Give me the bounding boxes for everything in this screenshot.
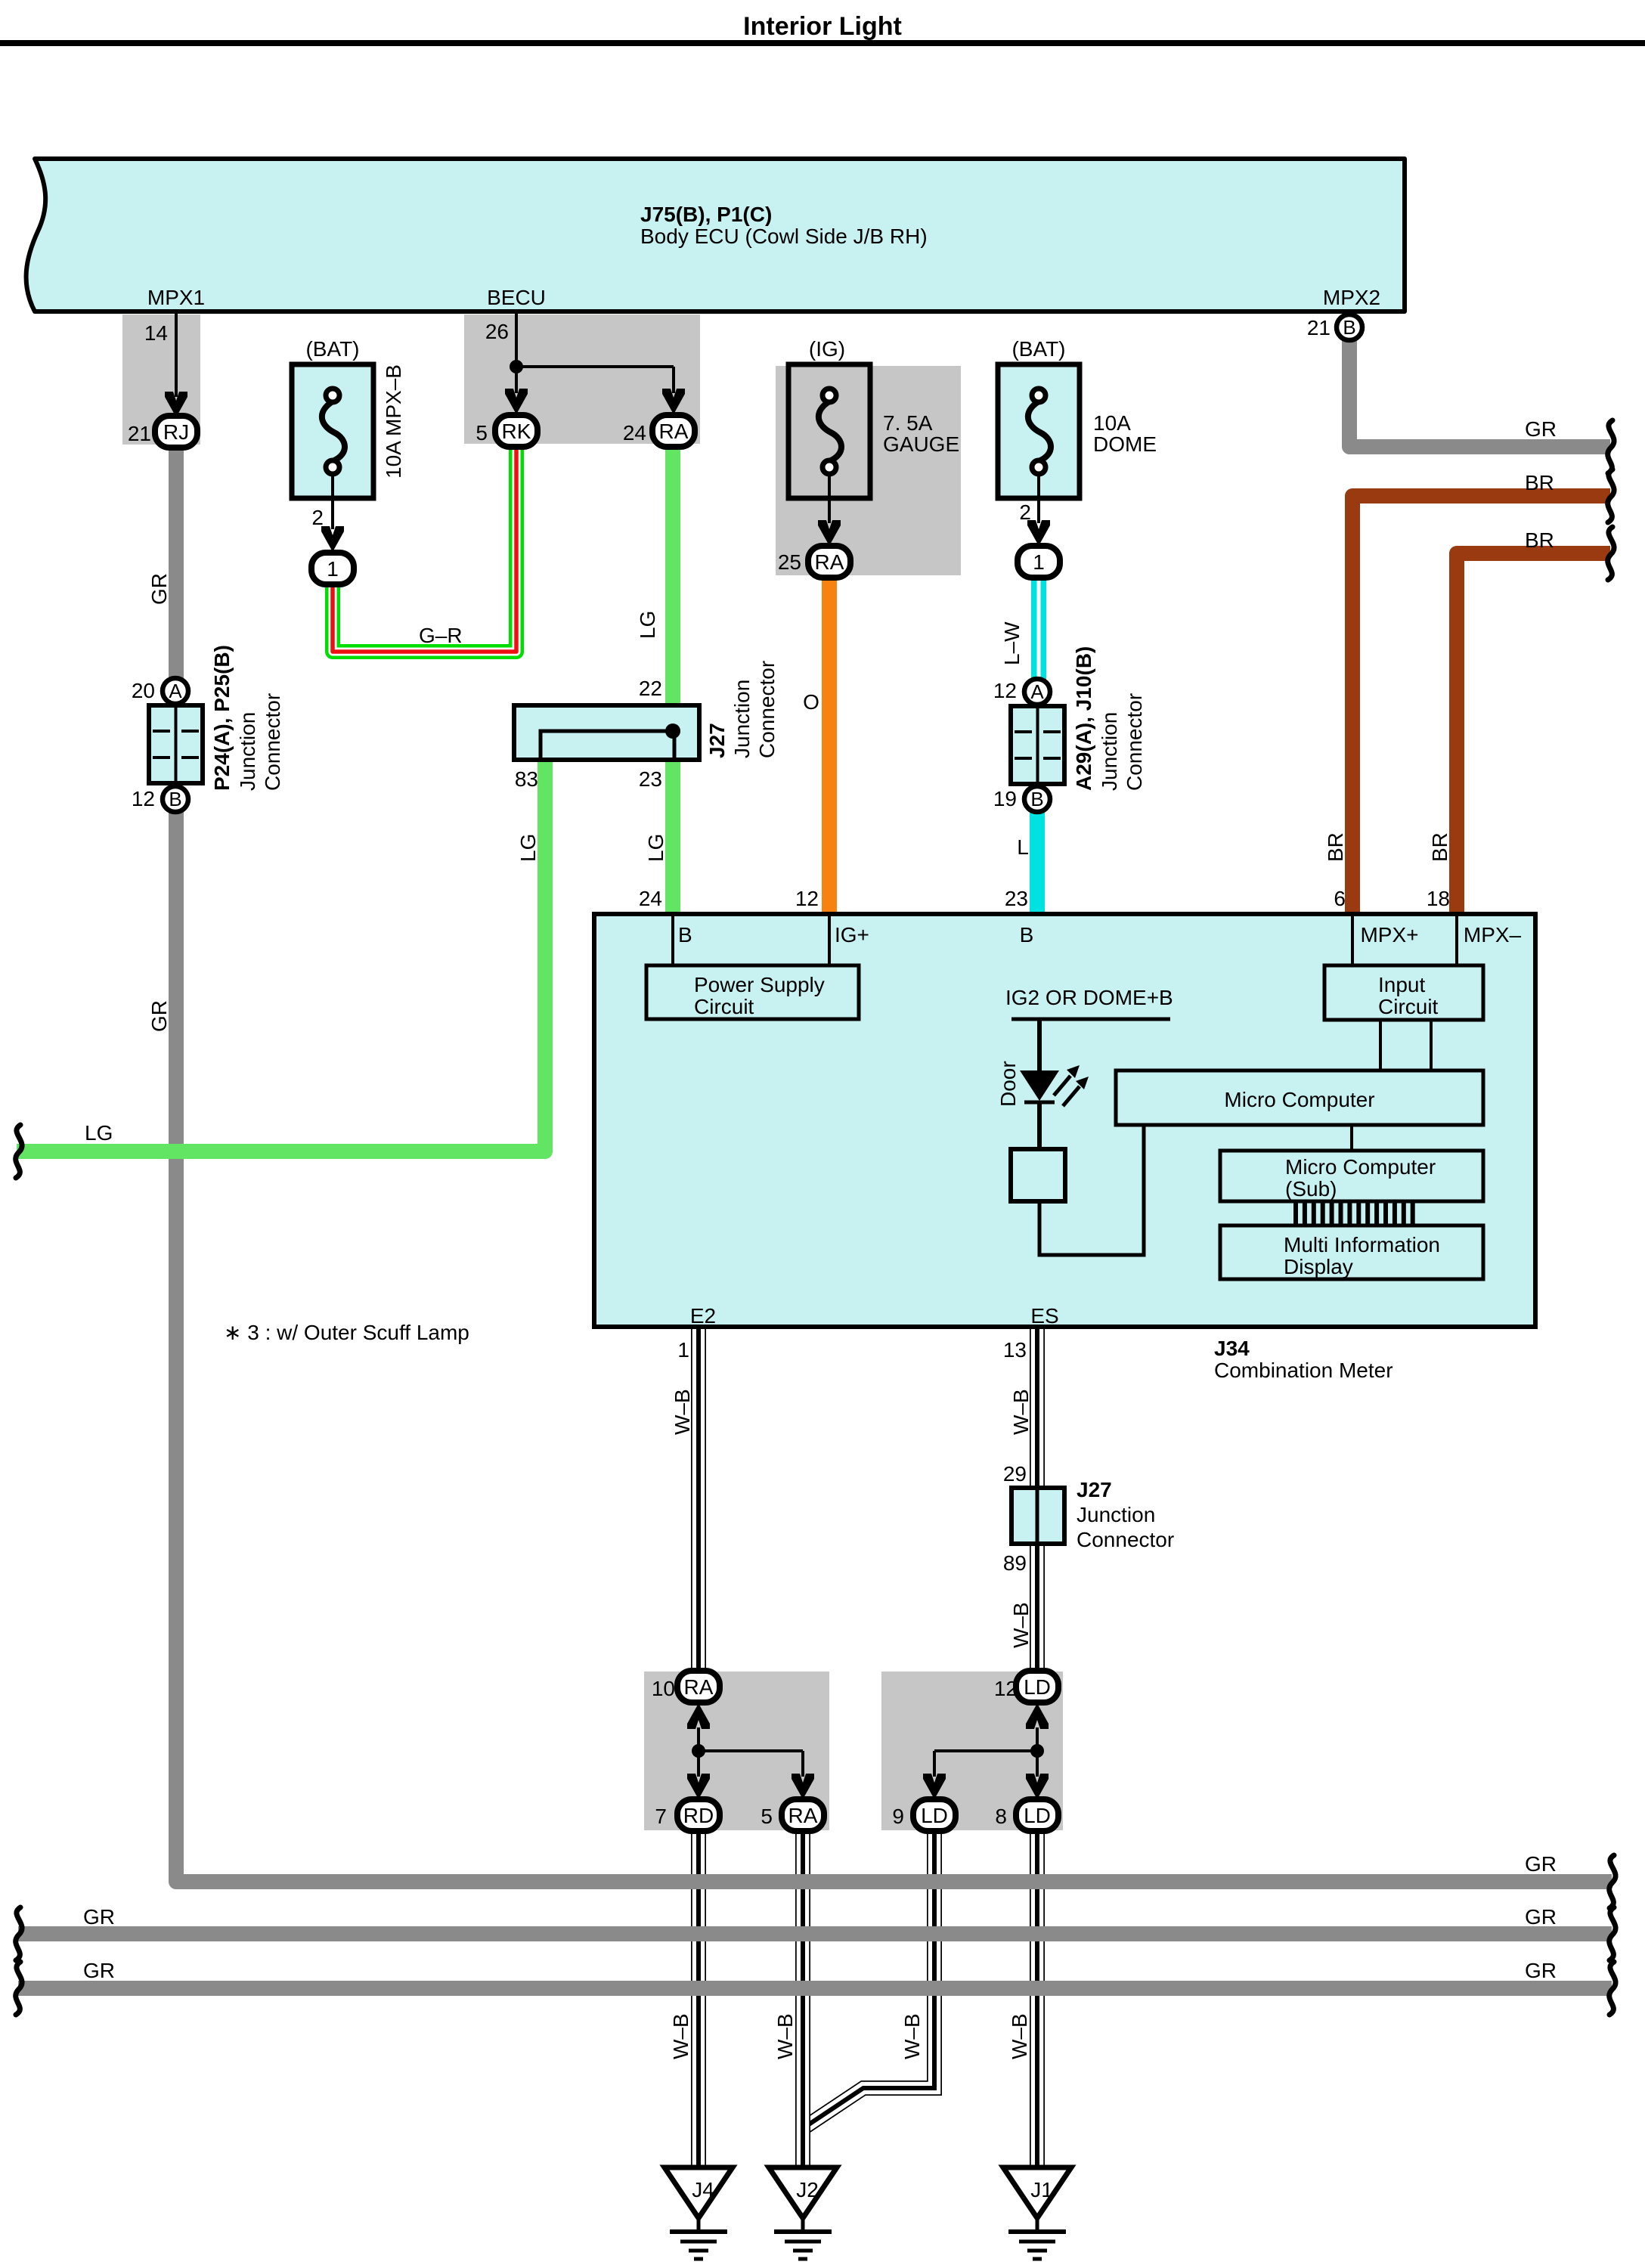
svg-text:LG: LG [516, 834, 540, 862]
svg-text:W–B: W–B [1009, 1389, 1033, 1435]
svg-text:Connector: Connector [755, 661, 779, 758]
svg-text:∗ 3 : w/ Outer Scuff Lamp: ∗ 3 : w/ Outer Scuff Lamp [224, 1321, 469, 1344]
svg-text:2: 2 [311, 506, 324, 529]
svg-text:IG+: IG+ [835, 923, 869, 947]
svg-text:Display: Display [1284, 1255, 1353, 1278]
svg-text:RA: RA [788, 1804, 818, 1827]
svg-text:9: 9 [892, 1805, 904, 1828]
svg-text:(BAT): (BAT) [1011, 337, 1065, 361]
svg-text:83: 83 [515, 767, 538, 791]
svg-text:24: 24 [639, 887, 662, 910]
svg-text:Micro Computer: Micro Computer [1224, 1088, 1374, 1111]
svg-text:23: 23 [1005, 887, 1028, 910]
svg-text:W–B: W–B [671, 1389, 694, 1435]
svg-text:MPX2: MPX2 [1323, 286, 1380, 309]
svg-text:G–R: G–R [419, 624, 463, 647]
svg-text:MPX–: MPX– [1464, 923, 1522, 947]
svg-text:10A MPX–B: 10A MPX–B [382, 364, 405, 479]
svg-text:23: 23 [639, 767, 662, 791]
svg-text:25: 25 [778, 550, 801, 574]
svg-text:Junction: Junction [236, 712, 259, 791]
svg-text:GR: GR [83, 1905, 115, 1929]
svg-text:Connector: Connector [1077, 1528, 1174, 1551]
svg-text:12: 12 [795, 887, 819, 910]
svg-text:21: 21 [1307, 316, 1331, 339]
svg-text:W–B: W–B [1009, 1602, 1033, 1648]
svg-text:26: 26 [485, 320, 509, 343]
svg-text:LD: LD [1024, 1804, 1051, 1827]
svg-text:12: 12 [132, 787, 155, 810]
svg-text:IG2 OR DOME+B: IG2 OR DOME+B [1005, 986, 1173, 1009]
svg-text:13: 13 [1003, 1338, 1027, 1362]
svg-text:Multi Information: Multi Information [1284, 1233, 1440, 1256]
svg-text:GR: GR [83, 1959, 115, 1982]
svg-text:MPX1: MPX1 [147, 286, 205, 309]
svg-text:2: 2 [1019, 500, 1031, 524]
svg-text:89: 89 [1003, 1551, 1027, 1575]
svg-text:GR: GR [1525, 1852, 1557, 1876]
svg-text:A: A [1030, 680, 1044, 703]
svg-text:L–W: L–W [1000, 621, 1024, 665]
svg-text:B: B [1343, 316, 1355, 339]
svg-text:L: L [1017, 835, 1029, 859]
svg-text:Junction: Junction [1077, 1503, 1155, 1526]
svg-text:12: 12 [993, 679, 1017, 702]
svg-text:J34: J34 [1214, 1337, 1250, 1360]
svg-text:J4: J4 [692, 2178, 714, 2201]
svg-text:RA: RA [684, 1675, 714, 1699]
svg-text:LG: LG [636, 611, 659, 639]
svg-text:10A: 10A [1093, 411, 1131, 435]
svg-text:7. 5A: 7. 5A [883, 411, 933, 435]
svg-text:RA: RA [815, 550, 844, 574]
svg-text:10: 10 [652, 1677, 675, 1700]
svg-text:Junction: Junction [1098, 712, 1121, 791]
svg-text:20: 20 [132, 679, 155, 702]
svg-text:B: B [1020, 923, 1034, 947]
svg-text:DOME: DOME [1093, 432, 1157, 456]
svg-text:29: 29 [1003, 1462, 1027, 1486]
svg-text:A29(A), J10(B): A29(A), J10(B) [1072, 646, 1095, 791]
svg-text:Connector: Connector [261, 693, 284, 791]
svg-text:22: 22 [639, 677, 662, 700]
svg-text:LG: LG [85, 1121, 113, 1145]
svg-text:J75(B), P1(C): J75(B), P1(C) [640, 203, 772, 226]
svg-text:(IG): (IG) [809, 337, 845, 361]
svg-text:J27: J27 [1077, 1478, 1112, 1501]
svg-text:Micro Computer: Micro Computer [1285, 1155, 1436, 1179]
svg-text:(Sub): (Sub) [1285, 1177, 1337, 1201]
svg-text:BR: BR [1525, 471, 1554, 494]
svg-text:J27: J27 [705, 723, 729, 758]
svg-text:B: B [1030, 788, 1043, 810]
svg-text:O: O [803, 690, 819, 714]
svg-text:LD: LD [1024, 1675, 1051, 1699]
svg-text:P24(A), P25(B): P24(A), P25(B) [210, 645, 234, 791]
svg-text:W–B: W–B [773, 2013, 797, 2059]
svg-text:BECU: BECU [487, 286, 546, 309]
svg-text:LG: LG [644, 834, 668, 862]
svg-text:Interior Light: Interior Light [743, 12, 902, 41]
svg-text:A: A [169, 680, 182, 702]
svg-text:Body ECU (Cowl Side J/B RH): Body ECU (Cowl Side J/B RH) [640, 225, 928, 248]
svg-text:RA: RA [659, 420, 689, 443]
svg-text:Junction: Junction [730, 680, 754, 758]
svg-text:(BAT): (BAT) [305, 337, 359, 361]
svg-text:W–B: W–B [900, 2013, 924, 2059]
svg-text:GAUGE: GAUGE [883, 432, 959, 456]
svg-text:Power Supply: Power Supply [694, 973, 825, 996]
svg-text:5: 5 [761, 1805, 773, 1828]
svg-text:GR: GR [1525, 417, 1557, 441]
svg-text:Input: Input [1378, 973, 1425, 996]
svg-text:5: 5 [476, 421, 488, 445]
svg-text:1: 1 [327, 557, 339, 581]
svg-text:W–B: W–B [1008, 2013, 1031, 2059]
svg-text:E2: E2 [690, 1304, 716, 1328]
svg-text:Connector: Connector [1123, 693, 1146, 791]
svg-text:LD: LD [921, 1804, 948, 1827]
svg-text:Door: Door [996, 1061, 1020, 1107]
svg-text:GR: GR [1525, 1959, 1557, 1982]
svg-text:GR: GR [147, 1000, 171, 1032]
svg-text:B: B [678, 923, 692, 947]
svg-text:7: 7 [655, 1805, 667, 1828]
svg-text:14: 14 [144, 321, 168, 345]
svg-text:BR: BR [1428, 832, 1451, 862]
svg-text:18: 18 [1427, 887, 1450, 910]
svg-text:J2: J2 [796, 2178, 819, 2201]
svg-text:Circuit: Circuit [694, 995, 754, 1018]
svg-text:Combination Meter: Combination Meter [1214, 1359, 1393, 1382]
svg-text:RK: RK [502, 420, 531, 443]
svg-text:21: 21 [128, 422, 151, 445]
svg-text:8: 8 [995, 1805, 1007, 1828]
svg-text:BR: BR [1525, 528, 1554, 552]
svg-text:24: 24 [623, 421, 646, 445]
svg-text:ES: ES [1030, 1304, 1058, 1328]
svg-text:RD: RD [683, 1804, 714, 1827]
svg-text:MPX+: MPX+ [1360, 923, 1418, 947]
svg-text:BR: BR [1324, 832, 1347, 862]
svg-text:GR: GR [147, 573, 171, 605]
svg-text:1: 1 [677, 1338, 689, 1362]
svg-text:19: 19 [993, 787, 1017, 810]
svg-text:1: 1 [1033, 550, 1045, 574]
svg-text:12: 12 [994, 1677, 1018, 1700]
svg-text:Circuit: Circuit [1378, 995, 1439, 1018]
svg-text:B: B [169, 788, 181, 810]
svg-text:GR: GR [1525, 1905, 1557, 1929]
svg-text:J1: J1 [1030, 2178, 1053, 2201]
svg-text:6: 6 [1334, 887, 1346, 910]
svg-text:RJ: RJ [163, 420, 189, 444]
svg-text:W–B: W–B [669, 2013, 692, 2059]
